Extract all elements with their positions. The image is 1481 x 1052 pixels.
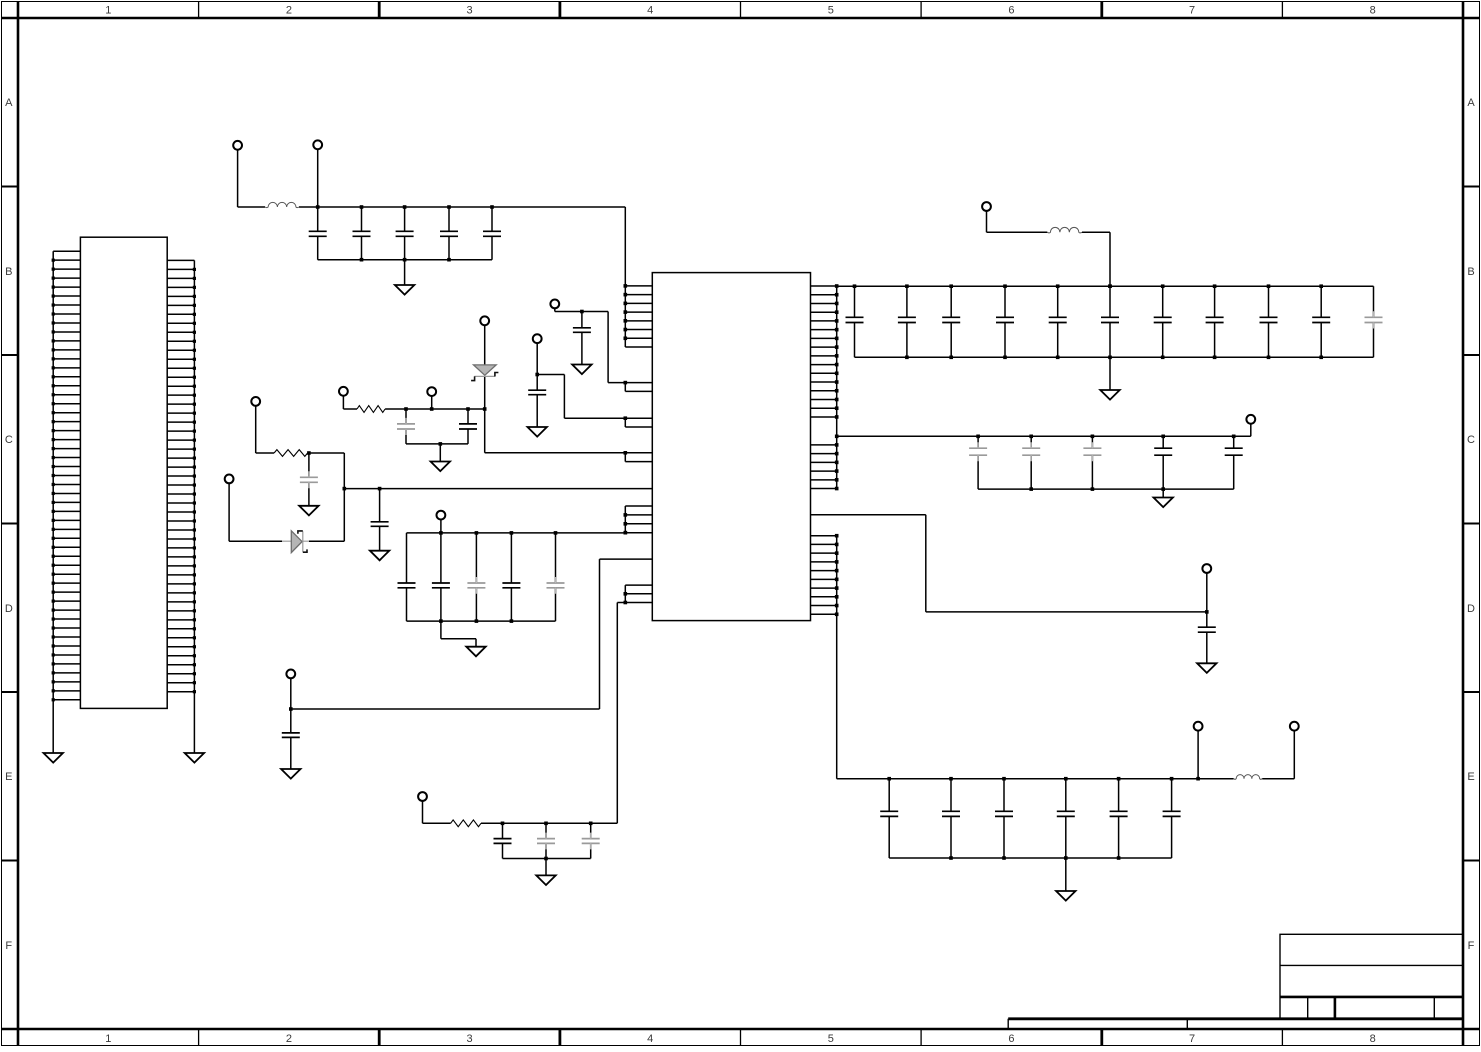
svg-text:7: 7: [1189, 1033, 1195, 1045]
svg-text:F: F: [5, 940, 12, 952]
svg-text:7: 7: [1189, 5, 1195, 17]
svg-text:A: A: [5, 97, 13, 109]
svg-text:D: D: [5, 603, 13, 615]
svg-text:2: 2: [286, 1033, 292, 1045]
svg-text:F: F: [1468, 940, 1475, 952]
svg-text:3: 3: [467, 1033, 473, 1045]
svg-text:8: 8: [1370, 1033, 1376, 1045]
svg-text:A: A: [1467, 97, 1475, 109]
svg-text:5: 5: [828, 5, 834, 17]
svg-text:1: 1: [105, 5, 111, 17]
svg-text:3: 3: [467, 5, 473, 17]
svg-text:B: B: [1467, 266, 1474, 278]
svg-text:C: C: [1467, 434, 1475, 446]
svg-text:1: 1: [105, 1033, 111, 1045]
svg-text:6: 6: [1008, 1033, 1014, 1045]
svg-text:E: E: [1467, 771, 1474, 783]
svg-text:E: E: [5, 771, 12, 783]
svg-text:D: D: [1467, 603, 1475, 615]
svg-text:8: 8: [1370, 5, 1376, 17]
svg-text:5: 5: [828, 1033, 834, 1045]
svg-text:C: C: [5, 434, 13, 446]
svg-text:4: 4: [647, 5, 653, 17]
svg-text:6: 6: [1008, 5, 1014, 17]
svg-text:B: B: [5, 266, 12, 278]
svg-text:2: 2: [286, 5, 292, 17]
svg-text:4: 4: [647, 1033, 653, 1045]
